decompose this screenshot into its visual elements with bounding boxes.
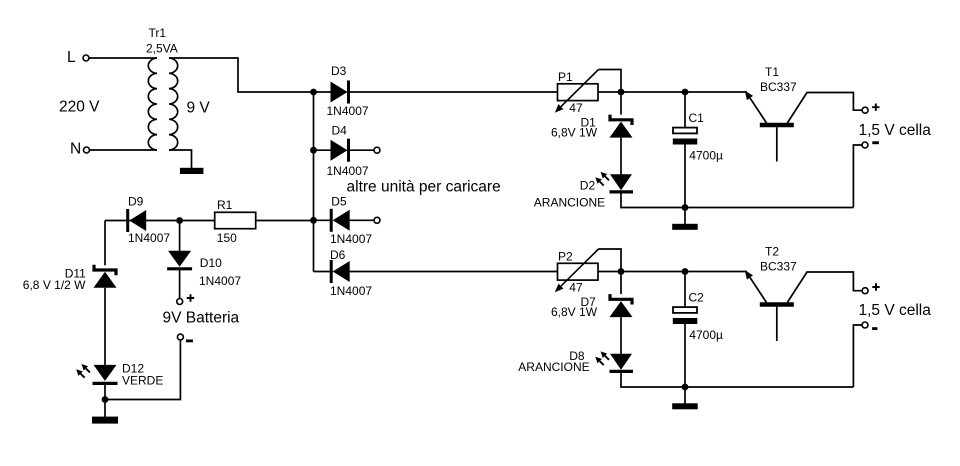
battery minus terminal — [177, 334, 183, 340]
svg-text:ARANCIONE: ARANCIONE — [518, 360, 589, 374]
wire bus to D6 anode — [314, 271, 334, 273]
node junction bus at D4 row — [310, 147, 317, 154]
svg-text:N: N — [70, 140, 81, 157]
node junction D12 cathode and battery minus return — [102, 396, 109, 403]
battery plus terminal — [177, 299, 183, 305]
wire D4 cathode to open terminal — [350, 149, 375, 151]
transistor T2 base lead — [776, 307, 778, 341]
diode D9 — [129, 210, 146, 231]
wire D11 anode to LED D12 — [104, 288, 106, 365]
wire node to D3 — [314, 91, 332, 93]
bottom rail wire — [685, 386, 853, 388]
wire P1 wiper to main node — [599, 70, 622, 93]
wire down to zener D1 — [620, 92, 622, 115]
node junction capacitor branch C1 — [682, 89, 689, 96]
bottom rail wire — [685, 207, 853, 209]
node junction zener branch D1 — [618, 89, 625, 96]
output plus terminal cell — [862, 107, 868, 113]
emission arrows of D2 — [600, 182, 604, 186]
diode D4 — [331, 140, 348, 161]
svg-text:4700µ: 4700µ — [689, 149, 723, 163]
wire transformer secondary bottom to ground — [169, 150, 192, 168]
transformer Tr1 secondary winding — [169, 58, 178, 150]
svg-text:1N4007: 1N4007 — [199, 274, 241, 288]
wire N terminal to transformer primary bottom — [90, 149, 158, 151]
LED D8 — [610, 354, 632, 370]
svg-text:T2: T2 — [765, 245, 779, 259]
transistor T2 base bar — [760, 302, 794, 306]
svg-text:1,5 V cella: 1,5 V cella — [859, 302, 932, 319]
label - of cell output — [872, 141, 879, 144]
svg-text:6,8V 1W: 6,8V 1W — [551, 305, 598, 319]
emission arrows of D8 — [600, 361, 604, 365]
wire bottom rail to ground stub — [684, 208, 686, 225]
wire open terminal to D5 — [349, 219, 374, 221]
svg-text:D10: D10 — [200, 256, 222, 270]
diode D10 — [168, 251, 191, 267]
wire minus terminal to bottom rail — [853, 145, 861, 208]
wire R1 to bus node — [256, 220, 314, 222]
svg-text:D6: D6 — [330, 248, 346, 262]
wire P2 wiper to main node — [599, 249, 622, 272]
terminal L — [83, 55, 89, 61]
svg-text:1N4007: 1N4007 — [327, 164, 369, 178]
svg-text:Tr1: Tr1 — [149, 26, 167, 40]
wire D10 to battery plus terminal — [179, 270, 181, 298]
wire D1 anode to LED D2 — [620, 138, 622, 175]
diode D5 — [333, 210, 350, 231]
svg-text:47: 47 — [569, 280, 583, 294]
svg-text:L: L — [67, 49, 76, 66]
capacitor C2 — [673, 307, 697, 313]
svg-text:BC337: BC337 — [760, 260, 797, 274]
resistor R1 — [215, 212, 256, 228]
open terminal after D4 — [374, 147, 380, 153]
output minus terminal cell — [862, 142, 868, 148]
svg-text:T1: T1 — [765, 65, 779, 79]
wire main node to capacitor node — [621, 91, 685, 93]
wire D9 row from corner to R1 — [105, 220, 215, 222]
wire capacitor node to transistor emitter — [685, 271, 747, 273]
wire down to zener D7 — [620, 272, 622, 295]
svg-text:9 V: 9 V — [187, 100, 211, 117]
transistor T1 collector — [787, 93, 862, 124]
zener diode D7 — [610, 294, 632, 304]
svg-text:D4: D4 — [332, 124, 348, 138]
wire D12 to ground — [104, 383, 106, 417]
svg-text:47: 47 — [569, 101, 583, 115]
wire D3 cathode to potentiometer P1 — [350, 91, 558, 93]
wire L terminal to transformer primary top — [89, 57, 157, 59]
node junction capacitor branch C2 — [682, 268, 689, 275]
svg-text:9V Batteria: 9V Batteria — [163, 310, 240, 327]
ground below transformer — [180, 168, 204, 174]
wire D7 anode to LED D8 — [620, 317, 622, 354]
diode D6 — [333, 261, 350, 282]
svg-text:D2: D2 — [580, 179, 596, 193]
ground below capacitor C2 — [672, 403, 698, 409]
wire main node to capacitor node — [621, 271, 685, 273]
potentiometer P1 — [558, 84, 599, 101]
transistor T1 emitter with arrow — [752, 101, 767, 123]
wire D8 cathode to bottom rail — [621, 371, 685, 387]
transistor T1 base lead — [776, 127, 778, 161]
svg-text:C2: C2 — [689, 291, 705, 305]
ground below capacitor C1 — [672, 224, 698, 230]
svg-text:P2: P2 — [558, 249, 573, 263]
svg-text:6,8V 1W: 6,8V 1W — [551, 126, 598, 140]
open terminal before D5 — [374, 217, 380, 223]
label - of battery — [186, 340, 193, 343]
node junction bottom rail at capacitor C2 — [682, 384, 689, 391]
wire D9 corner down to zener D11 — [104, 221, 106, 266]
svg-text:1N4007: 1N4007 — [330, 284, 372, 298]
svg-text:BC337: BC337 — [760, 80, 797, 94]
zener diode D1 — [610, 115, 632, 125]
svg-text:C1: C1 — [689, 111, 705, 125]
wire P2 to zener node — [598, 271, 621, 273]
potentiometer P2 — [558, 263, 599, 280]
LED D2 — [610, 174, 632, 190]
svg-text:ARANCIONE: ARANCIONE — [534, 196, 605, 210]
svg-text:1N4007: 1N4007 — [327, 104, 369, 118]
wire capacitor node down to capacitor C1 — [684, 92, 686, 128]
wire capacitor C2 to bottom rail — [684, 324, 686, 387]
svg-text:4700µ: 4700µ — [689, 328, 723, 342]
capacitor C1 — [673, 128, 697, 134]
label + of cell output — [872, 283, 879, 290]
ground below D12 — [92, 417, 118, 424]
wire D5 anode to bus node — [314, 219, 333, 221]
label + of battery — [187, 294, 194, 301]
svg-text:D5: D5 — [331, 195, 347, 209]
output plus terminal cell — [862, 288, 868, 294]
wire transformer secondary top to node A — [169, 58, 314, 92]
svg-text:P1: P1 — [558, 70, 573, 84]
transistor T2 collector — [787, 272, 862, 303]
bus wire from D3 row down to D6 row — [313, 92, 315, 272]
node junction D10 branch — [176, 217, 183, 224]
wire capacitor node to transistor emitter — [685, 91, 747, 93]
wire junction down to D10 — [179, 221, 181, 252]
wire P1 to zener node — [598, 91, 621, 93]
wire node to D4 — [314, 149, 332, 151]
LED D12 — [94, 365, 117, 381]
label + of cell output — [872, 104, 879, 111]
node junction zener branch D7 — [618, 268, 625, 275]
svg-text:150: 150 — [217, 231, 237, 245]
wire D2 cathode to bottom rail — [621, 192, 685, 208]
transistor T1 base bar — [760, 123, 794, 127]
transistor T2 emitter with arrow — [752, 281, 767, 303]
wire battery minus down and left to D12 cathode node — [105, 340, 180, 399]
wire capacitor C1 to bottom rail — [684, 145, 686, 208]
node junction bottom rail at capacitor C1 — [682, 204, 689, 211]
svg-text:6,8 V 1/2 W: 6,8 V 1/2 W — [23, 278, 86, 292]
svg-text:D3: D3 — [331, 64, 347, 78]
wire bottom rail to ground stub — [684, 387, 686, 404]
wire D6 cathode to potentiometer P2 — [350, 271, 558, 273]
node junction bus at D5 row — [310, 217, 317, 224]
terminal N — [84, 147, 90, 153]
svg-text:1,5 V cella: 1,5 V cella — [859, 122, 932, 139]
svg-text:1N4007: 1N4007 — [128, 231, 170, 245]
wire capacitor node down to capacitor C2 — [684, 272, 686, 308]
svg-text:altre unità per caricare: altre unità per caricare — [347, 179, 501, 196]
svg-text:1N4007: 1N4007 — [330, 232, 372, 246]
transformer Tr1 primary winding — [148, 58, 157, 150]
svg-text:D9: D9 — [128, 195, 144, 209]
svg-text:R1: R1 — [217, 198, 233, 212]
zener diode D11 — [94, 265, 116, 275]
svg-text:2,5VA: 2,5VA — [146, 42, 178, 56]
emission arrows of D12 — [81, 374, 85, 378]
wire minus terminal to bottom rail — [853, 325, 861, 387]
svg-text:VERDE: VERDE — [122, 373, 163, 387]
node junction bus at D3 row — [310, 89, 317, 96]
diode D3 — [331, 82, 348, 103]
svg-text:220 V: 220 V — [59, 99, 100, 116]
output minus terminal cell — [862, 322, 868, 328]
label - of cell output — [872, 327, 877, 330]
